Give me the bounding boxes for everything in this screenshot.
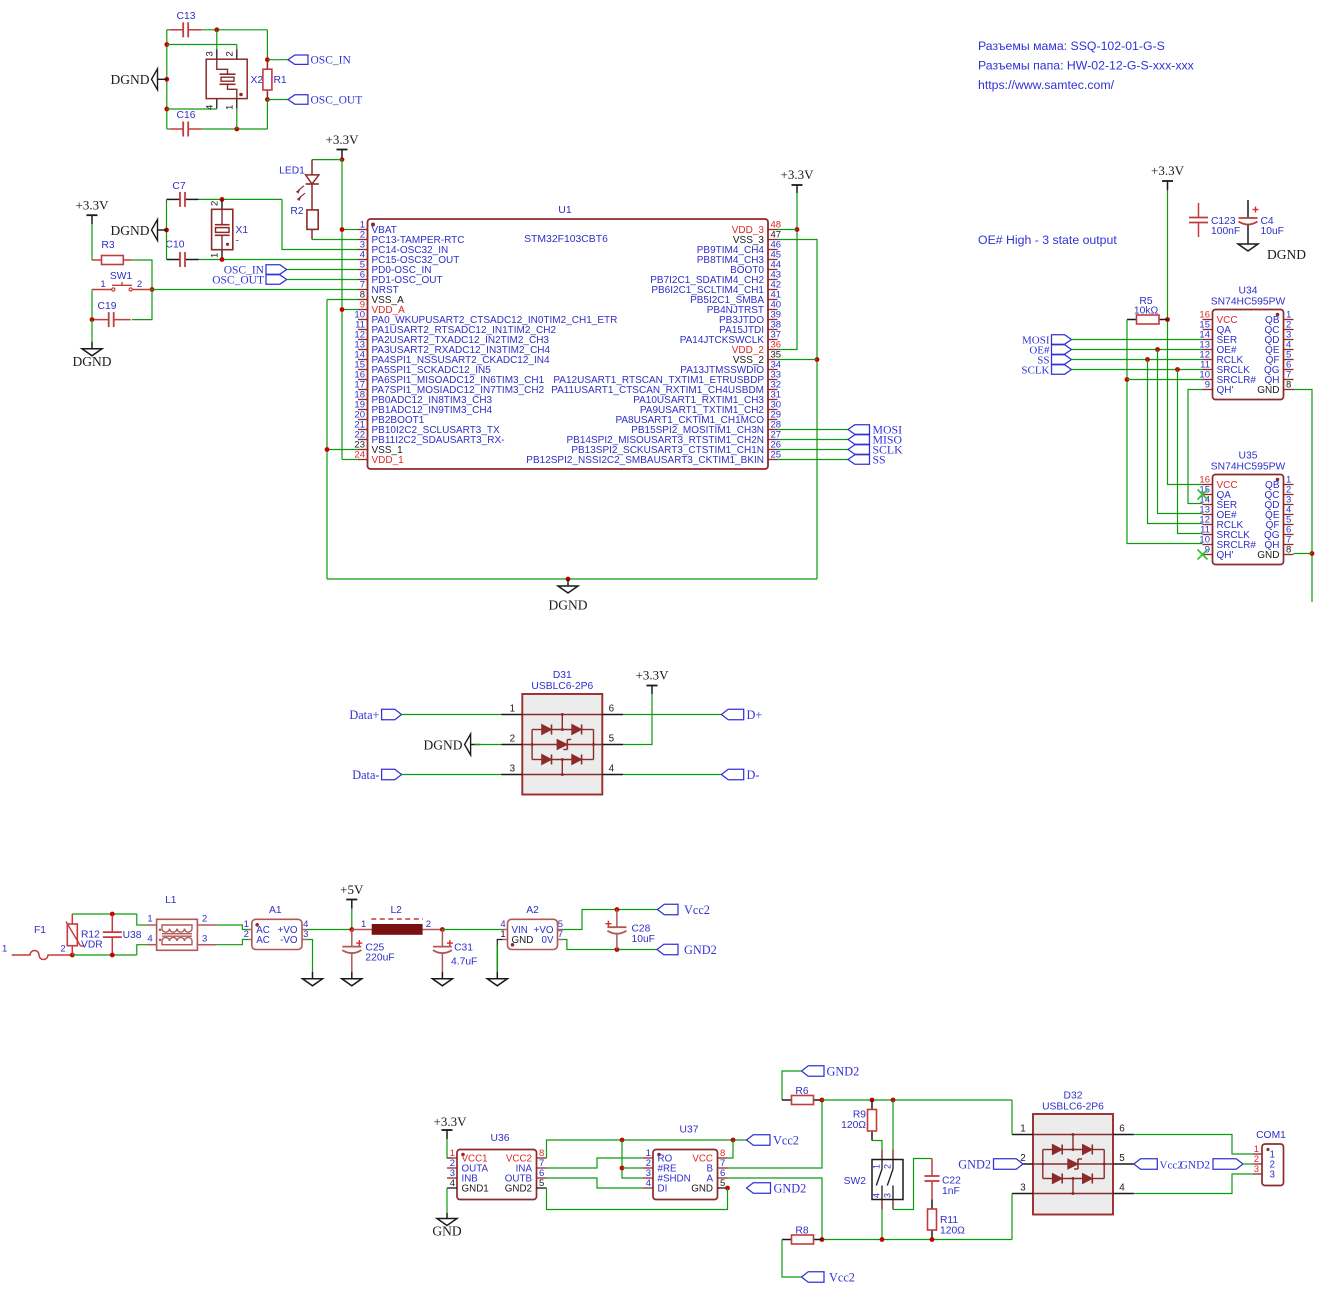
wire [167, 108, 217, 110]
IC U34 SN74HC595PW [1199, 286, 1293, 400]
svg-text:GND: GND [691, 1183, 713, 1194]
label Vcc2 [1134, 1159, 1183, 1172]
svg-text:R2: R2 [290, 206, 303, 217]
wire [72, 913, 137, 915]
svg-text:+5V: +5V [340, 882, 364, 897]
inductor L2 [352, 905, 443, 934]
wire [167, 29, 268, 31]
junction [1165, 317, 1170, 322]
capacitor C31 [433, 930, 477, 972]
power +3.3V [636, 668, 670, 695]
wire [307, 929, 352, 931]
junction [234, 127, 239, 132]
capacitor U38 [103, 915, 142, 955]
wire [266, 30, 268, 60]
svg-text:0V: 0V [542, 935, 554, 946]
junction [110, 953, 115, 958]
wire [728, 1140, 734, 1158]
svg-text:2: 2 [202, 914, 207, 925]
ground DGND [1238, 240, 1306, 263]
svg-text:4: 4 [205, 105, 216, 110]
wire [91, 224, 93, 260]
wire VCC2 [547, 1140, 747, 1158]
svg-text:C16: C16 [177, 110, 196, 121]
resistor R5 [1127, 296, 1168, 324]
junction [340, 227, 345, 232]
svg-text:C19: C19 [98, 301, 117, 312]
wire RO-INA [547, 1158, 644, 1168]
junction [340, 157, 345, 162]
wire [622, 1167, 643, 1169]
junction [615, 907, 620, 912]
IC U1 STM32F103CBT6 [354, 204, 781, 469]
svg-text:DGND: DGND [73, 354, 112, 369]
junction [1155, 347, 1160, 352]
svg-text:R1: R1 [274, 75, 287, 86]
junction [620, 1166, 625, 1171]
wire D32-4 [1134, 1174, 1253, 1194]
svg-text:Vcc2: Vcc2 [773, 1133, 799, 1147]
svg-text:U1: U1 [558, 204, 572, 216]
wire MOSI [1072, 339, 1203, 341]
svg-text:U34: U34 [1239, 286, 1258, 297]
ground [432, 972, 452, 986]
capacitor C19 [92, 301, 131, 327]
svg-text:GND: GND [1257, 550, 1279, 561]
junction [325, 447, 330, 452]
svg-text:OSC_IN: OSC_IN [311, 55, 352, 67]
svg-text:+3.3V: +3.3V [326, 132, 360, 147]
svg-text:A2: A2 [526, 905, 539, 916]
resistor R1 [263, 60, 287, 100]
wire [402, 774, 502, 776]
svg-text:4: 4 [609, 764, 615, 775]
svg-text:3: 3 [1020, 1183, 1026, 1194]
power +3.3V [781, 167, 815, 193]
wire [475, 744, 502, 746]
crystal X2 [205, 50, 264, 111]
switch SW2 [844, 1150, 903, 1210]
junction [880, 1237, 885, 1242]
power +5V [340, 882, 364, 909]
svg-text:7: 7 [558, 929, 563, 940]
svg-text:3: 3 [202, 933, 207, 944]
label Vcc2 [658, 904, 679, 914]
svg-text:USBLC6-2P6: USBLC6-2P6 [531, 681, 593, 692]
wire [199, 198, 283, 200]
svg-text:SW1: SW1 [110, 271, 133, 282]
svg-text:+3.3V: +3.3V [434, 1114, 468, 1129]
label GND2 [1180, 1159, 1243, 1172]
IC U37 [643, 1125, 728, 1200]
svg-text:120Ω: 120Ω [841, 1120, 866, 1131]
svg-text:SN74HC595PW: SN74HC595PW [1211, 462, 1286, 473]
svg-text:2: 2 [244, 929, 249, 940]
svg-text:Разъемы папа: HW-02-12-G-S-xxx: Разъемы папа: HW-02-12-G-S-xxx-xxx [978, 59, 1195, 73]
ground [487, 972, 507, 986]
label D- [721, 768, 759, 782]
wire [312, 159, 342, 161]
capacitor C4 [1239, 200, 1284, 240]
wire GND loop [547, 1188, 728, 1210]
label Data- [352, 768, 401, 782]
resistor R11 [928, 1200, 966, 1240]
wire [287, 269, 358, 271]
wire [447, 1139, 452, 1158]
varistor R12 [66, 914, 103, 955]
svg-text:X2: X2 [251, 75, 264, 86]
svg-text:QH': QH' [1217, 385, 1234, 396]
resistor R6 [782, 1086, 822, 1105]
wire [217, 925, 248, 930]
label SCLK [848, 443, 903, 457]
svg-text:SS: SS [873, 453, 886, 467]
IC U36 [447, 1133, 547, 1200]
svg-text:-VO: -VO [280, 935, 298, 946]
svg-text:6: 6 [609, 704, 615, 715]
svg-text:DGND: DGND [111, 223, 150, 238]
svg-text:3: 3 [883, 1193, 893, 1198]
wire GND [1294, 390, 1313, 603]
svg-text:220uF: 220uF [365, 953, 394, 964]
wire VCC [1168, 190, 1203, 485]
wire [442, 929, 502, 931]
wire [216, 30, 218, 50]
power +3.3V [76, 198, 110, 225]
svg-text:SN74HC595PW: SN74HC595PW [1211, 297, 1286, 308]
wire [1178, 370, 1203, 534]
svg-text:1: 1 [872, 1164, 882, 1169]
capacitor C13 [170, 11, 202, 37]
svg-text:DGND: DGND [111, 72, 150, 87]
label MOSI [1022, 335, 1072, 347]
wire NRST [152, 289, 358, 291]
junction [795, 227, 800, 232]
wire [1011, 1194, 1013, 1240]
wire DI-OUTB [547, 1178, 644, 1188]
power +3.3V [434, 1114, 468, 1139]
wire [1011, 1100, 1013, 1135]
switch SW1 [92, 271, 152, 291]
svg-text:VDD_1: VDD_1 [372, 455, 405, 466]
wire [1243, 1163, 1253, 1165]
resistor R3 [92, 240, 132, 265]
svg-text:+3.3V: +3.3V [781, 167, 815, 182]
svg-text:PB12SPI2_NSSI2C2_SMBAUSART3_CK: PB12SPI2_NSSI2C2_SMBAUSART3_CKTIM1_BKIN [526, 455, 764, 466]
wire [782, 1240, 802, 1278]
junction [164, 42, 169, 47]
label OE# [1029, 345, 1071, 357]
svg-text:R3: R3 [101, 240, 114, 251]
module A2 [500, 905, 563, 950]
wire D32-6 [1134, 1135, 1253, 1155]
svg-text:1: 1 [225, 105, 236, 110]
svg-text:1: 1 [2, 944, 7, 955]
svg-text:Data+: Data+ [349, 708, 379, 722]
svg-text:2: 2 [137, 279, 142, 290]
no-connect U35 QA [1198, 490, 1208, 500]
wire [312, 239, 358, 241]
svg-text:U35: U35 [1239, 451, 1258, 462]
wire [778, 193, 798, 350]
svg-text:R11: R11 [940, 1215, 958, 1226]
svg-text:L1: L1 [165, 895, 177, 906]
svg-text:VDR: VDR [81, 940, 103, 951]
wire DGND bus [327, 578, 817, 580]
junction [725, 1186, 730, 1191]
svg-text:USBLC6-2P6: USBLC6-2P6 [1042, 1102, 1104, 1113]
junction [220, 257, 225, 262]
svg-text:8: 8 [1286, 380, 1291, 391]
svg-text:2: 2 [210, 201, 221, 206]
wire SCLK [1072, 369, 1203, 371]
svg-text:10uF: 10uF [632, 934, 655, 945]
svg-text:OE# High - 3 state output: OE# High - 3 state output [978, 233, 1117, 247]
wire VSS rail [327, 300, 358, 580]
svg-text:3: 3 [303, 929, 308, 940]
wire SS [778, 459, 849, 461]
svg-text:GND: GND [432, 1224, 461, 1239]
wire [287, 279, 358, 281]
IC D31 USBLC6-2P6 [502, 670, 624, 795]
junction [870, 1098, 875, 1103]
svg-text:1: 1 [147, 914, 152, 925]
wire D- [623, 774, 721, 776]
svg-text:24: 24 [354, 450, 365, 461]
junction [90, 317, 95, 322]
wire [307, 940, 313, 972]
wire [1127, 379, 1203, 381]
junction [930, 1237, 935, 1242]
power +3.3V [1151, 163, 1185, 190]
fuse F1 [2, 925, 72, 960]
svg-text:R9: R9 [853, 1110, 866, 1121]
svg-text:GND: GND [1257, 385, 1279, 396]
svg-text:D31: D31 [553, 670, 572, 681]
ground DGND [549, 579, 588, 613]
svg-text:GND2: GND2 [958, 1157, 991, 1171]
svg-text:+3.3V: +3.3V [636, 668, 670, 683]
svg-text:2: 2 [883, 1164, 893, 1169]
svg-text:F1: F1 [34, 925, 46, 936]
capacitor C10 [166, 240, 199, 268]
svg-text:C28: C28 [632, 924, 651, 935]
svg-text:100nF: 100nF [1211, 226, 1240, 237]
ground DGND [73, 342, 112, 369]
svg-text:8: 8 [1286, 545, 1291, 556]
label OSC_OUT [212, 275, 286, 287]
note connectors [978, 39, 1195, 92]
svg-text:OSC_OUT: OSC_OUT [311, 95, 363, 107]
svg-text:3: 3 [1254, 1164, 1259, 1175]
svg-text:120Ω: 120Ω [940, 1226, 965, 1237]
wire [1148, 360, 1203, 524]
wire [623, 694, 652, 745]
wire QH-SER [1188, 390, 1203, 504]
svg-text:D32: D32 [1064, 1091, 1083, 1102]
svg-text:5: 5 [539, 1178, 544, 1189]
junction [164, 228, 169, 233]
wire SRCLR [1127, 320, 1203, 544]
wire [563, 940, 658, 950]
wire B [728, 1100, 823, 1168]
svg-text:D-: D- [747, 768, 760, 782]
junction [214, 27, 219, 32]
ground GND [432, 1213, 461, 1239]
wire [72, 954, 137, 956]
junction [265, 97, 270, 102]
svg-text:U37: U37 [680, 1125, 699, 1136]
wire [497, 940, 502, 972]
wire MOSI [778, 429, 849, 431]
svg-text:3: 3 [510, 764, 516, 775]
wire [778, 229, 798, 231]
label OSC_IN [288, 55, 351, 67]
wire [132, 260, 152, 290]
wire [446, 1188, 448, 1213]
svg-text:DI: DI [658, 1183, 668, 1194]
svg-text:Разъемы мама: SSQ-102-01-G-S: Разъемы мама: SSQ-102-01-G-S [978, 39, 1165, 53]
wire [563, 910, 658, 930]
label Data+ [349, 708, 401, 722]
junction [440, 927, 445, 932]
junction [820, 1098, 825, 1103]
svg-text:C7: C7 [172, 181, 185, 192]
label MISO [848, 433, 902, 447]
junction [731, 1138, 736, 1143]
svg-text:-: - [236, 236, 239, 247]
svg-text:6: 6 [1119, 1124, 1125, 1135]
junction [110, 912, 115, 917]
svg-text:1nF: 1nF [942, 1186, 960, 1197]
svg-text:X1: X1 [236, 225, 249, 236]
svg-text:COM1: COM1 [1256, 1130, 1286, 1141]
svg-text:Vcc2: Vcc2 [829, 1270, 855, 1284]
crystal X1 [210, 199, 249, 259]
wire [236, 109, 238, 130]
svg-text:Data-: Data- [352, 768, 379, 782]
label OSC_OUT [288, 95, 362, 107]
junction [820, 1237, 825, 1242]
label OSC_IN [224, 265, 287, 277]
wire [782, 1071, 802, 1100]
wire [351, 909, 353, 930]
svg-text:R6: R6 [795, 1086, 808, 1097]
note OE [978, 233, 1117, 247]
wire [892, 1100, 894, 1150]
wire VSS_2 [778, 359, 818, 361]
svg-text:1: 1 [100, 279, 105, 290]
capacitor C28 [605, 910, 655, 950]
capacitor C25 [342, 930, 394, 972]
svg-text:GND2: GND2 [827, 1064, 860, 1078]
svg-text:GND2: GND2 [1180, 1159, 1211, 1171]
junction [70, 953, 75, 958]
resistor R9 [841, 1100, 876, 1141]
wire [166, 30, 168, 129]
svg-text:4: 4 [450, 1178, 455, 1189]
svg-text:AC: AC [256, 935, 270, 946]
wire rail bottom [822, 1239, 1012, 1241]
svg-text:U36: U36 [491, 1133, 510, 1144]
label SS [848, 453, 886, 467]
resistor R8 [782, 1226, 822, 1245]
svg-text:4: 4 [1119, 1183, 1125, 1194]
svg-text:+3.3V: +3.3V [76, 198, 110, 213]
svg-text:C10: C10 [166, 240, 185, 251]
svg-text:2: 2 [426, 919, 431, 930]
label SS [1037, 355, 1071, 367]
wire [217, 940, 248, 945]
svg-text:GND1: GND1 [462, 1183, 489, 1194]
wire [282, 199, 358, 249]
ground DGND [424, 734, 481, 755]
wire [167, 128, 268, 130]
wire [622, 1140, 643, 1178]
wire [893, 1159, 932, 1210]
svg-text:5: 5 [609, 734, 615, 745]
svg-text:5: 5 [720, 1178, 725, 1189]
svg-text:DGND: DGND [424, 737, 463, 752]
power +3.3V [326, 132, 360, 160]
svg-text:DGND: DGND [549, 598, 588, 613]
wire [267, 59, 288, 61]
label GND2 [958, 1157, 1023, 1171]
wire OE# [1072, 349, 1203, 351]
junction [566, 577, 571, 582]
junction [620, 1138, 625, 1143]
svg-text:5: 5 [1119, 1153, 1125, 1164]
junction [164, 77, 169, 82]
junction [150, 287, 155, 292]
label MOSI [848, 423, 902, 437]
label GND2 [802, 1064, 860, 1078]
wire [137, 914, 147, 925]
svg-text:STM32F103CBT6: STM32F103CBT6 [524, 234, 608, 245]
svg-text:SCLK: SCLK [1021, 365, 1049, 377]
label GND2 [657, 943, 717, 957]
ground DGND [111, 220, 168, 241]
wire [132, 290, 152, 320]
svg-text:OSC_OUT: OSC_OUT [212, 275, 264, 287]
svg-text:GND2: GND2 [774, 1181, 807, 1195]
module A1 [244, 905, 309, 950]
svg-text:GND2: GND2 [684, 943, 717, 957]
svg-text:1: 1 [1020, 1124, 1025, 1135]
svg-text:C31: C31 [454, 943, 473, 954]
connector COM1 [1253, 1130, 1286, 1186]
label Vcc2 [747, 1133, 799, 1147]
svg-text:4: 4 [147, 933, 152, 944]
LED LED1 [279, 160, 319, 210]
wire [266, 100, 268, 130]
label Vcc2 text [684, 903, 710, 917]
svg-text:3: 3 [1270, 1169, 1276, 1180]
wire [881, 1210, 883, 1240]
junction [265, 57, 270, 62]
wire [267, 99, 288, 101]
wire rail top [822, 1099, 1012, 1101]
svg-text:1: 1 [500, 929, 505, 940]
wire [91, 290, 93, 320]
wire [199, 259, 359, 261]
svg-text:4: 4 [872, 1193, 882, 1198]
wire SCLK [778, 449, 849, 451]
capacitor C7 [167, 181, 199, 207]
svg-text:L2: L2 [390, 905, 402, 916]
wire [137, 945, 147, 955]
wire [1294, 553, 1313, 555]
